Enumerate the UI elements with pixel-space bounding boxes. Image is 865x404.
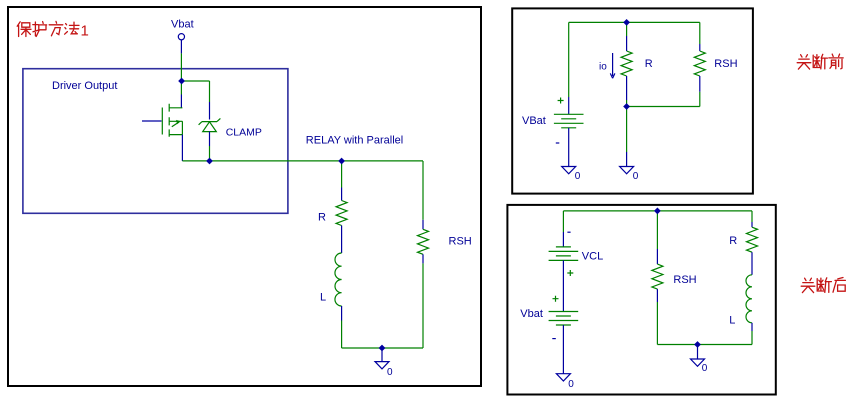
svg-text:io: io <box>599 62 607 73</box>
svg-text:1: 1 <box>81 22 89 39</box>
svg-text:L: L <box>729 315 735 327</box>
svg-text:Vbat: Vbat <box>171 19 194 31</box>
svg-text:RELAY with Parallel: RELAY with Parallel <box>306 135 403 147</box>
svg-text:Vbat: Vbat <box>520 308 543 320</box>
svg-text:0: 0 <box>702 363 708 374</box>
svg-text:VBat: VBat <box>522 115 546 127</box>
svg-text:L: L <box>320 292 326 304</box>
svg-text:0: 0 <box>575 171 581 182</box>
svg-text:RSH: RSH <box>449 235 472 247</box>
svg-text:0: 0 <box>568 379 574 390</box>
svg-text:CLAMP: CLAMP <box>226 126 262 138</box>
svg-text:R: R <box>729 235 737 247</box>
svg-text:R: R <box>645 58 653 70</box>
svg-text:Driver Output: Driver Output <box>52 80 117 92</box>
svg-text:RSH: RSH <box>673 274 696 286</box>
svg-text:0: 0 <box>387 367 393 378</box>
svg-text:0: 0 <box>633 171 639 182</box>
svg-text:RSH: RSH <box>714 58 737 70</box>
svg-text:VCL: VCL <box>582 250 603 262</box>
svg-text:R: R <box>318 212 326 224</box>
